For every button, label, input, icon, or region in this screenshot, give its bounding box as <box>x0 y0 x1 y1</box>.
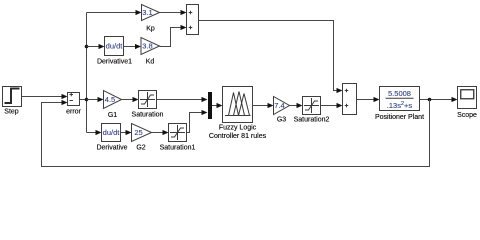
wire: Fuzzy Logic Controller to G3 <box>253 105 270 107</box>
arrowhead into G1 <box>98 97 104 102</box>
wire: Mux output to Fuzzy Logic Controller <box>212 105 219 107</box>
arrowhead into Positioner Plant <box>374 97 380 102</box>
wire: Saturation to Mux input 1 <box>157 99 204 101</box>
gain Kp value 3.1 <box>142 5 160 21</box>
arrowhead into Sum2 top <box>337 88 343 93</box>
arrowhead into Scope <box>452 97 458 102</box>
arrowhead into Fuzzy Logic Controller <box>217 103 223 108</box>
svg-text:Saturation2: Saturation2 <box>294 117 330 124</box>
wire: branch vertical line x=86.5 (error node up to Kp row, down to Derivative row) <box>86 13 88 133</box>
sum block error <box>68 93 80 106</box>
svg-text:Step: Step <box>4 109 19 116</box>
wire: Kd to Sum1 bottom input <box>160 28 183 47</box>
wire: Positioner Plant to Scope <box>420 99 454 101</box>
arrowhead into Mux input 2 <box>202 110 208 115</box>
block Step <box>3 87 22 107</box>
wire: error output to branch node <box>80 99 87 101</box>
wire: Step to error plus input <box>21 96 63 98</box>
wire: branch node to G1 <box>87 99 100 101</box>
derivative block Derivative1 <box>105 37 124 56</box>
svg-text:Positioner Plant: Positioner Plant <box>375 114 424 121</box>
wire: Kp to Sum1 top input <box>160 12 183 14</box>
svg-text:Controller 81 rules: Controller 81 rules <box>209 133 267 140</box>
mux Mux <box>208 92 212 119</box>
svg-text:3.8: 3.8 <box>142 42 152 51</box>
svg-text:du/dt: du/dt <box>106 42 124 51</box>
arrowhead into error minus <box>62 100 68 105</box>
wire: Derivative to G2 <box>121 132 128 134</box>
svg-text:du/dt: du/dt <box>103 128 121 137</box>
arrowhead into Kd <box>135 44 141 49</box>
arrowhead into Derivative <box>96 130 102 135</box>
sum block Sum2 <box>343 84 357 115</box>
saturation block Saturation <box>139 91 157 109</box>
transfer function Positioner Plant <box>380 87 420 111</box>
arrowhead into G3 <box>268 103 274 108</box>
wire: top horizontal to Kp <box>87 12 138 14</box>
svg-text:Kd: Kd <box>146 59 155 66</box>
wire: G1 to Saturation <box>122 99 135 101</box>
arrowhead into Sum1 top <box>181 10 187 15</box>
gain Kd value 3.8 <box>141 38 160 55</box>
node A: branch dot at Derivative1 row <box>85 45 89 49</box>
wire: Derivative1 to Kd <box>124 46 138 48</box>
svg-text:G2: G2 <box>136 145 145 152</box>
derivative block Derivative <box>102 124 121 142</box>
arrowhead into Mux input 1 <box>202 97 208 102</box>
svg-text:error: error <box>66 109 81 116</box>
arrowhead into Sum2 bottom <box>337 103 343 108</box>
saturation block Saturation1 <box>169 124 187 142</box>
arrowhead into Saturation1 <box>163 130 169 135</box>
arrowhead into Sum1 bottom <box>181 25 187 30</box>
wire: Sum1 output right and down to Sum2 top input <box>199 21 339 91</box>
wire: branch to Derivative1 <box>87 46 101 48</box>
svg-text:25: 25 <box>134 128 142 137</box>
wire: G2 to Saturation1 <box>152 132 165 134</box>
svg-text:G1: G1 <box>108 112 117 119</box>
arrowhead into error plus <box>62 94 68 99</box>
arrowhead into Saturation <box>133 97 139 102</box>
wire: feedback loop down, left along bottom, up to error minus input <box>42 100 430 167</box>
wire: branch down to Derivative <box>87 132 98 134</box>
svg-text:Derivative1: Derivative1 <box>97 59 132 66</box>
svg-text:Saturation: Saturation <box>132 112 164 119</box>
node C: feedback tap dot after plant <box>428 98 432 102</box>
wire: G3 to Saturation2 <box>290 105 299 107</box>
svg-text:4.5: 4.5 <box>105 95 115 104</box>
svg-text:7.4: 7.4 <box>274 101 284 110</box>
gain G3 value 7.4 <box>274 97 290 115</box>
arrowhead into Derivative1 <box>99 44 105 49</box>
gain G1 value 4.5 <box>104 91 122 109</box>
svg-text:3.1: 3.1 <box>142 8 152 17</box>
wire: Saturation1 up to Mux input 2 <box>187 113 204 133</box>
arrowhead into G2 <box>126 130 132 135</box>
arrowhead into Saturation2 <box>297 103 303 108</box>
svg-text:G3: G3 <box>277 117 286 124</box>
gain G2 value 25 <box>132 124 152 142</box>
saturation block Saturation2 <box>303 97 321 115</box>
sum block Sum1 <box>187 5 199 35</box>
wire: Sum2 output to Positioner Plant <box>357 99 376 101</box>
node B: branch dot at error output <box>85 98 89 102</box>
wire: Saturation2 to Sum2 bottom input <box>321 105 339 107</box>
svg-text:.13s2+s: .13s2+s <box>387 101 413 110</box>
svg-text:Scope: Scope <box>457 112 477 119</box>
svg-text:Fuzzy Logic: Fuzzy Logic <box>219 125 257 132</box>
svg-text:Derivative: Derivative <box>96 145 127 152</box>
svg-text:Kp: Kp <box>146 26 155 33</box>
arrowhead into Kp <box>136 10 142 15</box>
svg-text:5.5008: 5.5008 <box>388 89 411 98</box>
fuzzy logic controller U1 <box>223 87 253 123</box>
scope Scope <box>458 87 477 109</box>
svg-text:Saturation1: Saturation1 <box>160 145 196 152</box>
